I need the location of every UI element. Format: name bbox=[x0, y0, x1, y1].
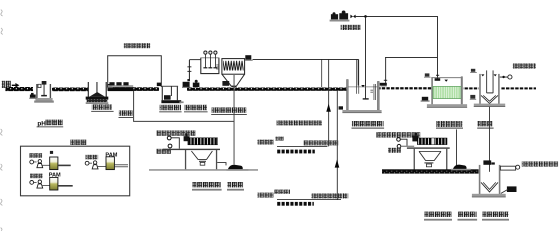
dosing unit 1 agitator figure bbox=[37, 160, 50, 168]
mixer in pH tank bbox=[41, 81, 47, 96]
tank: pre-aeration tank left wall bbox=[347, 80, 349, 111]
tank: aerobic biofilter right wall bbox=[461, 76, 463, 104]
tank: final sludge tank walls bbox=[479, 165, 501, 194]
water line and level mark in pre-aeration tank bbox=[348, 85, 377, 87]
wire: main pipe band dark stretch under pump platform bbox=[108, 87, 134, 91]
tank: lift pump station walls bbox=[162, 86, 178, 101]
return pumps (circles) at thickener 1 bbox=[167, 136, 179, 149]
label 达标排放 bbox=[513, 63, 536, 68]
label 上清液送至污泥浓缩池 bbox=[522, 161, 559, 166]
callout 2 right text 污泥回流至调节池 bbox=[311, 193, 348, 198]
thickener 2 hopper trapezoid bbox=[419, 151, 441, 160]
callout 1 text 水平潜污泵 bbox=[257, 137, 284, 145]
dosing unit 1 chemical tank bbox=[50, 157, 58, 170]
label 好氧生物滤池 bbox=[436, 121, 463, 129]
wire: drop into pre-aeration tank bbox=[357, 59, 360, 86]
thickener 1 deck line bbox=[163, 149, 220, 150]
lift pumps on main line bbox=[182, 80, 199, 88]
label 调节泵井 bbox=[91, 104, 113, 111]
tank: aerobic biofilter left wall bbox=[431, 77, 433, 104]
secondary clarifier V hopper bbox=[481, 95, 498, 103]
dosing unit 2 chemical tank bbox=[50, 177, 58, 190]
tank: pre-aeration tank right wall bbox=[377, 81, 379, 110]
pump platform group under callout bbox=[108, 82, 133, 87]
tank: secondary clarifier walls bbox=[479, 74, 500, 104]
pre-aeration tank base bbox=[342, 110, 381, 113]
thickener 2 bottom fitting bbox=[424, 162, 433, 166]
dosing unit 1 pump circle bbox=[30, 160, 37, 164]
final tank V hopper bbox=[481, 182, 498, 192]
label 预曝气调节池 bbox=[352, 121, 385, 129]
svg-text:pH: pH bbox=[37, 120, 46, 127]
label 泥饼外运 bbox=[458, 212, 478, 221]
elbow at biofilter air inlet bbox=[435, 75, 441, 81]
wire: lower sludge L-pipe from grit channel bbox=[134, 91, 234, 122]
mixer 1 bbox=[203, 51, 207, 68]
dosing unit 1 label 加药泵 bbox=[30, 153, 43, 158]
secondary clarifier center well bbox=[486, 70, 493, 93]
wire: secondary clarifier sludge drop bbox=[488, 107, 491, 172]
callout 1 leader line bbox=[277, 145, 327, 148]
wire: main pipe band segment G (dashed thin) bbox=[501, 87, 536, 89]
label 板框压滤 (next to thickener 1) bbox=[227, 182, 244, 191]
junction dot on air main bbox=[364, 15, 367, 18]
blower unit (Roots blower) bbox=[330, 11, 350, 22]
level mark left of secondary clarifier bbox=[470, 69, 477, 73]
wire: air main header bbox=[356, 15, 438, 18]
scraper drive pump on clarifier rim bbox=[245, 55, 253, 61]
wire: recirculation callout rectangle over head works bbox=[108, 56, 162, 87]
callout 2 text 水平潜污泵 bbox=[257, 190, 290, 198]
wire: main pipe band segment A bbox=[5, 87, 33, 91]
wire: main pipe band segment B bbox=[52, 88, 88, 92]
tank: thickener 2 walls bbox=[414, 149, 448, 171]
label 干泥泵 at thickener 1 bbox=[156, 149, 171, 154]
valve takeoff on riser 2 bbox=[339, 106, 343, 109]
inlet label 污水 bbox=[2, 81, 11, 88]
wire: main pipe band segment C bbox=[108, 87, 160, 91]
flocculation tank top edge bbox=[201, 57, 219, 60]
flow arrow on riser 1 bbox=[326, 104, 331, 112]
tank: regulating pump sump walls bbox=[88, 82, 107, 97]
label 污泥浓缩池 (bottom) bbox=[424, 212, 452, 221]
label 板框压滤机 bbox=[482, 212, 509, 221]
small inlet box on pH tank bbox=[38, 84, 41, 87]
wire: air drop to biofilter bbox=[436, 16, 439, 79]
wire: return riser 2 bbox=[337, 91, 338, 200]
level marks in secondary clarifier bbox=[481, 74, 497, 76]
return pumps (circles) at thickener 2 bbox=[397, 138, 414, 148]
label 污水提升泵 bbox=[184, 105, 208, 113]
dosing unit 3 double outlet line bbox=[114, 164, 128, 167]
drop pipe in sump bbox=[96, 82, 97, 93]
belt press block on thickener 1 bbox=[188, 138, 218, 145]
label 絮凝反应沉淀池 bbox=[211, 107, 247, 115]
sludge transfer pump 2 bbox=[451, 165, 471, 171]
wire: effluent line with junction dot bbox=[500, 76, 508, 78]
sludge transfer pump 1 bbox=[226, 165, 248, 171]
effluent trough at final tank bbox=[500, 166, 515, 170]
label 回流液入调节池给水 (thickener 2 header) bbox=[376, 132, 420, 137]
label 回流液回流入调节池 (thickener 1 header) bbox=[156, 130, 196, 135]
elbow and valve at inner air drop bbox=[380, 80, 387, 87]
label 罗茨风机 bbox=[341, 25, 361, 30]
callout 1 dashed pipe band bbox=[277, 150, 315, 154]
sludge mark at clarifier left bbox=[470, 95, 476, 100]
outfall circle at final tank bbox=[516, 165, 520, 169]
edge fold mark 5 bbox=[1, 228, 2, 231]
label pH调节池 bbox=[37, 120, 64, 128]
label 上清液回流至气浮机 (small row) bbox=[277, 120, 322, 125]
level mark left of biofilter bbox=[424, 73, 431, 77]
belt press block on thickener 2 bbox=[417, 138, 447, 145]
dosing unit 2 pump circle bbox=[30, 181, 37, 185]
sump bottom hopper triangle bbox=[90, 92, 105, 97]
feed valve into thickener 2 belt bbox=[412, 133, 418, 142]
callout 1 right text 上清液回流至调节池 bbox=[303, 140, 338, 145]
biofilter media block (green) bbox=[433, 86, 461, 98]
biofilter top edge and level mark bbox=[433, 77, 461, 81]
thickener 2 deck line bbox=[407, 147, 450, 148]
label 二沉池 bbox=[477, 121, 493, 129]
label 干泥泵 at thickener 2 bbox=[388, 148, 401, 153]
thickener 1 hopper trapezoid bbox=[191, 151, 212, 159]
dosing unit 2 agitator figure bbox=[37, 180, 50, 188]
label 污水泵站 bbox=[159, 105, 181, 113]
thickener 1 bottom fitting bbox=[199, 161, 206, 165]
wire: return riser 1 bbox=[327, 59, 330, 146]
sump dark bottom rows bbox=[86, 97, 109, 104]
pump at pH tank bbox=[29, 93, 36, 99]
baffle marks in flocculation tank bbox=[216, 65, 218, 70]
dosing unit 3 chemical tank bbox=[106, 157, 114, 170]
label 回流液进入调节池 (title of callout) bbox=[124, 43, 150, 48]
dosing unit 3 pump circle bbox=[85, 161, 92, 165]
biofilter base bbox=[427, 104, 467, 108]
wire: clarified water line to pre-aeration tank bbox=[253, 58, 359, 61]
wire: drop to sludge pump 2 bbox=[455, 129, 458, 168]
wire: thickener 1 outlet L-pipe bbox=[217, 163, 226, 166]
feed valve into thickener 1 belt bbox=[184, 133, 190, 141]
ground line under thickener 1 bbox=[149, 169, 258, 171]
legend title 加药间 bbox=[70, 140, 87, 145]
edge fold mark 2 bbox=[1, 129, 3, 135]
flow arrow on riser 2 bbox=[335, 160, 340, 168]
inclined plate zigzag pack bbox=[223, 60, 243, 71]
edge fold mark 3 bbox=[1, 164, 3, 170]
label 格栅 bbox=[119, 110, 134, 118]
tank: flocculation reaction tank bbox=[201, 58, 219, 74]
pump at final tank bottom right bbox=[501, 186, 517, 193]
label 污泥浓缩池 (thickener 1) bbox=[192, 182, 222, 191]
wire: inner air branch drop bbox=[384, 57, 387, 84]
dosing unit 1 mark above tank bbox=[50, 151, 53, 154]
dosing unit 1 outlet line bbox=[58, 165, 71, 167]
inlet flow arrow bbox=[12, 83, 20, 88]
edge fold mark 0 bbox=[1, 10, 3, 16]
final tank base bbox=[472, 194, 506, 198]
wire: clarifier sludge drop line bbox=[234, 75, 235, 165]
pump left of biofilter bbox=[421, 97, 430, 102]
dosing unit 2 outlet line bbox=[58, 185, 73, 187]
valve at lift station top left bbox=[157, 83, 161, 87]
edge fold mark 4 bbox=[1, 199, 3, 205]
legend: dosing room box bbox=[21, 146, 130, 196]
callout 2 dashed pipe band bbox=[277, 202, 314, 206]
wire: feed line to flocculation tank bbox=[189, 58, 201, 61]
feed pipe pair inside pre-aeration tank bbox=[356, 59, 359, 93]
pump at sump top right bbox=[107, 84, 113, 88]
valve marks at final tank inlet bbox=[483, 160, 494, 164]
discharge outfall circle bbox=[508, 75, 512, 79]
lift station inner pipe and pump bbox=[164, 86, 172, 100]
second pipe pair inside pre-aeration tank bbox=[370, 84, 376, 100]
clarifier hopper bbox=[222, 74, 245, 87]
wire: inner air branch header bbox=[385, 56, 437, 59]
callout 2 leader line bbox=[277, 198, 341, 201]
dosing unit 3 agitator figure bbox=[92, 161, 106, 169]
mixer 2 bbox=[208, 51, 212, 68]
mixer 3 bbox=[213, 51, 217, 68]
lift station dark bottom bbox=[161, 100, 183, 103]
ground hatch band (bottom right) bbox=[382, 169, 479, 173]
tank: pH adjustment tank walls bbox=[34, 84, 54, 103]
wire: main pipe band segment D bbox=[187, 88, 347, 91]
wire: downcomer pair from effluent line to band bbox=[320, 59, 323, 87]
wire: main pipe band segment F (dashed thin) bbox=[463, 87, 479, 89]
tank: inclined-plate clarifier box bbox=[222, 59, 245, 75]
valve at blower outlet bbox=[350, 15, 355, 19]
diffuser at air drop bbox=[363, 98, 369, 99]
wire: riser pipe to flocculation tank with flanges bbox=[187, 60, 191, 81]
dosing unit 3 label 加药泵 bbox=[86, 155, 99, 160]
edge fold mark 1 bbox=[1, 28, 3, 34]
wire: main pipe band segment E (dashed thin) bbox=[380, 87, 432, 89]
secondary clarifier base bbox=[474, 104, 505, 107]
dosing unit 2 label 加药泵 bbox=[30, 174, 43, 179]
wire: air drop to pre-aeration tank bbox=[364, 16, 367, 98]
tank: thickener 1 walls bbox=[185, 150, 217, 169]
